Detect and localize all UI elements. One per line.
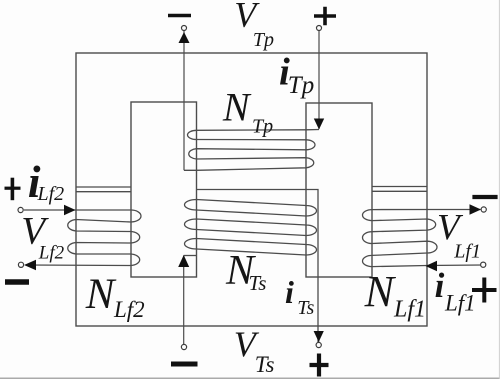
svg-text:Lf2: Lf2 (37, 183, 65, 205)
svg-text:Lf2: Lf2 (38, 243, 65, 264)
svg-text:N: N (364, 267, 397, 316)
svg-text:Tp: Tp (252, 115, 273, 137)
svg-text:i: i (435, 266, 445, 305)
svg-text:Lf1: Lf1 (453, 241, 481, 263)
svg-text:Tp: Tp (253, 29, 274, 51)
svg-text:i: i (285, 274, 294, 310)
svg-text:N: N (222, 85, 252, 130)
svg-text:Ts: Ts (255, 352, 275, 377)
svg-text:Lf1: Lf1 (393, 297, 426, 323)
svg-text:Ts: Ts (249, 271, 267, 295)
svg-text:N: N (85, 271, 117, 318)
svg-text:Lf1: Lf1 (444, 291, 476, 316)
svg-text:Ts: Ts (297, 297, 314, 319)
svg-text:Lf2: Lf2 (113, 297, 145, 322)
svg-text:Tp: Tp (288, 72, 314, 99)
